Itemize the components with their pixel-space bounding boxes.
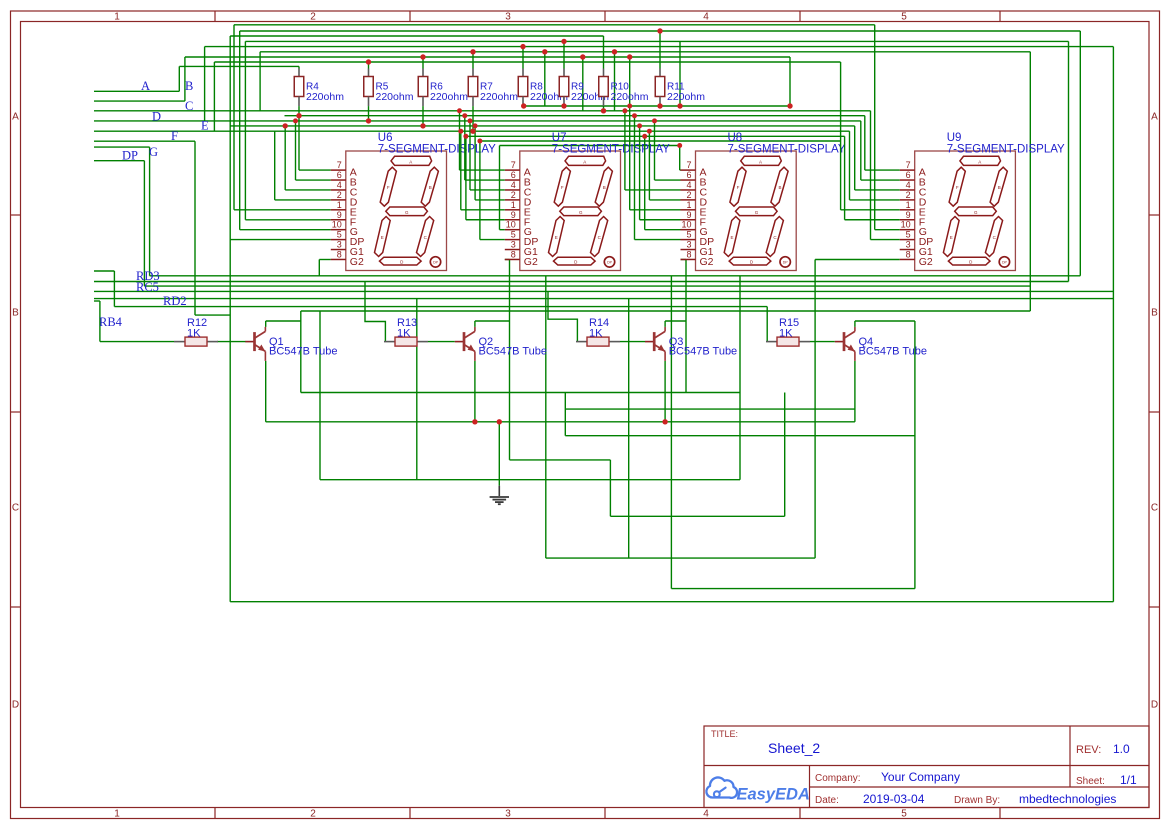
svg-text:7-SEGMENT-DISPLAY: 7-SEGMENT-DISPLAY bbox=[728, 144, 846, 156]
svg-text:Company:: Company: bbox=[815, 773, 861, 784]
svg-text:2: 2 bbox=[310, 809, 316, 820]
svg-text:G: G bbox=[579, 210, 583, 215]
svg-text:F: F bbox=[561, 185, 564, 190]
svg-text:A: A bbox=[12, 112, 19, 123]
svg-text:5: 5 bbox=[337, 230, 342, 240]
svg-text:B: B bbox=[429, 185, 432, 190]
svg-text:10: 10 bbox=[332, 220, 342, 230]
svg-text:3: 3 bbox=[686, 240, 691, 250]
svg-text:TITLE:: TITLE: bbox=[711, 729, 738, 739]
svg-text:10: 10 bbox=[681, 220, 691, 230]
svg-text:5: 5 bbox=[511, 230, 516, 240]
svg-text:5: 5 bbox=[901, 809, 907, 820]
svg-text:RC5: RC5 bbox=[136, 280, 159, 294]
svg-text:1: 1 bbox=[511, 200, 516, 210]
svg-text:D: D bbox=[12, 700, 19, 711]
svg-text:C: C bbox=[185, 99, 193, 113]
svg-text:1K: 1K bbox=[397, 328, 411, 340]
svg-text:D: D bbox=[152, 110, 161, 124]
svg-text:4: 4 bbox=[686, 180, 691, 190]
svg-text:3: 3 bbox=[511, 240, 516, 250]
svg-text:F: F bbox=[956, 185, 959, 190]
svg-text:6: 6 bbox=[337, 170, 342, 180]
svg-text:10: 10 bbox=[901, 220, 911, 230]
svg-text:220ohm: 220ohm bbox=[306, 91, 344, 103]
svg-text:10: 10 bbox=[506, 220, 516, 230]
svg-text:C: C bbox=[1151, 503, 1158, 514]
svg-text:DP: DP bbox=[1002, 260, 1008, 264]
svg-text:6: 6 bbox=[906, 170, 911, 180]
svg-text:5: 5 bbox=[901, 12, 907, 23]
svg-text:U9: U9 bbox=[947, 132, 962, 144]
svg-text:1: 1 bbox=[114, 809, 120, 820]
svg-text:1K: 1K bbox=[779, 328, 793, 340]
svg-text:RB4: RB4 bbox=[99, 315, 123, 329]
svg-text:B: B bbox=[603, 185, 606, 190]
svg-text:2: 2 bbox=[337, 190, 342, 200]
svg-text:D: D bbox=[1151, 700, 1158, 711]
svg-text:U6: U6 bbox=[378, 132, 393, 144]
svg-text:220ohm: 220ohm bbox=[667, 91, 705, 103]
svg-text:6: 6 bbox=[511, 170, 516, 180]
svg-text:A: A bbox=[409, 159, 412, 164]
svg-text:220ohm: 220ohm bbox=[611, 91, 649, 103]
svg-text:B: B bbox=[1151, 308, 1158, 319]
svg-text:9: 9 bbox=[686, 210, 691, 220]
svg-text:DP: DP bbox=[122, 149, 138, 163]
svg-text:9: 9 bbox=[906, 210, 911, 220]
svg-text:3: 3 bbox=[505, 809, 511, 820]
svg-text:A: A bbox=[141, 79, 150, 93]
svg-text:7-SEGMENT-DISPLAY: 7-SEGMENT-DISPLAY bbox=[947, 144, 1065, 156]
svg-text:3: 3 bbox=[505, 12, 511, 23]
svg-text:8: 8 bbox=[686, 249, 691, 259]
svg-text:1.0: 1.0 bbox=[1113, 742, 1130, 756]
svg-text:E: E bbox=[381, 235, 384, 240]
svg-text:8: 8 bbox=[511, 249, 516, 259]
svg-text:9: 9 bbox=[511, 210, 516, 220]
svg-text:A: A bbox=[978, 159, 981, 164]
svg-text:DP: DP bbox=[433, 260, 439, 264]
svg-text:A: A bbox=[583, 159, 586, 164]
svg-text:E: E bbox=[201, 119, 209, 133]
svg-text:5: 5 bbox=[906, 230, 911, 240]
svg-text:1: 1 bbox=[114, 12, 120, 23]
svg-text:U8: U8 bbox=[728, 132, 743, 144]
svg-text:220ohm: 220ohm bbox=[376, 91, 414, 103]
svg-text:BC547B Tube: BC547B Tube bbox=[479, 346, 548, 358]
svg-text:1: 1 bbox=[906, 200, 911, 210]
svg-text:F: F bbox=[737, 185, 740, 190]
svg-text:E: E bbox=[950, 235, 953, 240]
svg-text:REV:: REV: bbox=[1076, 744, 1101, 756]
svg-text:8: 8 bbox=[337, 249, 342, 259]
svg-text:2: 2 bbox=[686, 190, 691, 200]
svg-text:G2: G2 bbox=[524, 256, 538, 268]
svg-text:Sheet_2: Sheet_2 bbox=[768, 740, 820, 756]
svg-text:Your Company: Your Company bbox=[881, 770, 960, 784]
svg-text:BC547B Tube: BC547B Tube bbox=[859, 346, 928, 358]
svg-text:G: G bbox=[974, 210, 978, 215]
svg-text:220ohm: 220ohm bbox=[480, 91, 518, 103]
svg-text:7: 7 bbox=[337, 160, 342, 170]
svg-text:E: E bbox=[730, 235, 733, 240]
svg-text:DP: DP bbox=[783, 260, 789, 264]
svg-text:B: B bbox=[998, 185, 1001, 190]
svg-text:G: G bbox=[149, 145, 158, 159]
svg-text:Sheet:: Sheet: bbox=[1076, 776, 1105, 787]
svg-text:Drawn By:: Drawn By: bbox=[954, 795, 1000, 806]
svg-text:2: 2 bbox=[906, 190, 911, 200]
svg-text:2019-03-04: 2019-03-04 bbox=[863, 792, 925, 806]
svg-text:RD2: RD2 bbox=[163, 294, 187, 308]
svg-text:4: 4 bbox=[511, 180, 516, 190]
svg-text:1: 1 bbox=[337, 200, 342, 210]
svg-text:7-SEGMENT-DISPLAY: 7-SEGMENT-DISPLAY bbox=[552, 144, 670, 156]
svg-text:C: C bbox=[12, 503, 19, 514]
svg-text:4: 4 bbox=[703, 809, 709, 820]
svg-text:E: E bbox=[555, 235, 558, 240]
svg-text:B: B bbox=[185, 79, 193, 93]
svg-text:B: B bbox=[778, 185, 781, 190]
svg-text:BC547B Tube: BC547B Tube bbox=[669, 346, 738, 358]
svg-text:G2: G2 bbox=[700, 256, 714, 268]
svg-text:7-SEGMENT-DISPLAY: 7-SEGMENT-DISPLAY bbox=[378, 144, 496, 156]
svg-text:1K: 1K bbox=[589, 328, 603, 340]
svg-text:mbedtechnologies: mbedtechnologies bbox=[1019, 792, 1116, 806]
svg-text:BC547B Tube: BC547B Tube bbox=[269, 346, 338, 358]
svg-text:2: 2 bbox=[511, 190, 516, 200]
svg-text:220ohm: 220ohm bbox=[430, 91, 468, 103]
svg-text:1: 1 bbox=[686, 200, 691, 210]
svg-text:G: G bbox=[755, 210, 759, 215]
svg-text:3: 3 bbox=[337, 240, 342, 250]
svg-text:1K: 1K bbox=[187, 328, 201, 340]
svg-text:DP: DP bbox=[607, 260, 613, 264]
svg-text:3: 3 bbox=[906, 240, 911, 250]
svg-text:7: 7 bbox=[511, 160, 516, 170]
svg-text:G: G bbox=[405, 210, 409, 215]
svg-text:U7: U7 bbox=[552, 132, 567, 144]
svg-text:B: B bbox=[12, 308, 19, 319]
svg-text:9: 9 bbox=[337, 210, 342, 220]
svg-text:4: 4 bbox=[337, 180, 342, 190]
svg-text:7: 7 bbox=[906, 160, 911, 170]
svg-text:5: 5 bbox=[686, 230, 691, 240]
svg-text:1/1: 1/1 bbox=[1120, 773, 1137, 787]
svg-text:F: F bbox=[387, 185, 390, 190]
svg-text:G2: G2 bbox=[350, 256, 364, 268]
svg-text:4: 4 bbox=[703, 12, 709, 23]
svg-text:A: A bbox=[759, 159, 762, 164]
svg-text:A: A bbox=[1151, 112, 1158, 123]
svg-text:6: 6 bbox=[686, 170, 691, 180]
svg-text:4: 4 bbox=[906, 180, 911, 190]
svg-text:Date:: Date: bbox=[815, 795, 839, 806]
svg-text:2: 2 bbox=[310, 12, 316, 23]
svg-text:F: F bbox=[171, 129, 178, 143]
svg-text:7: 7 bbox=[686, 160, 691, 170]
svg-text:G2: G2 bbox=[919, 256, 933, 268]
svg-text:EasyEDA: EasyEDA bbox=[737, 786, 810, 804]
svg-text:8: 8 bbox=[906, 249, 911, 259]
